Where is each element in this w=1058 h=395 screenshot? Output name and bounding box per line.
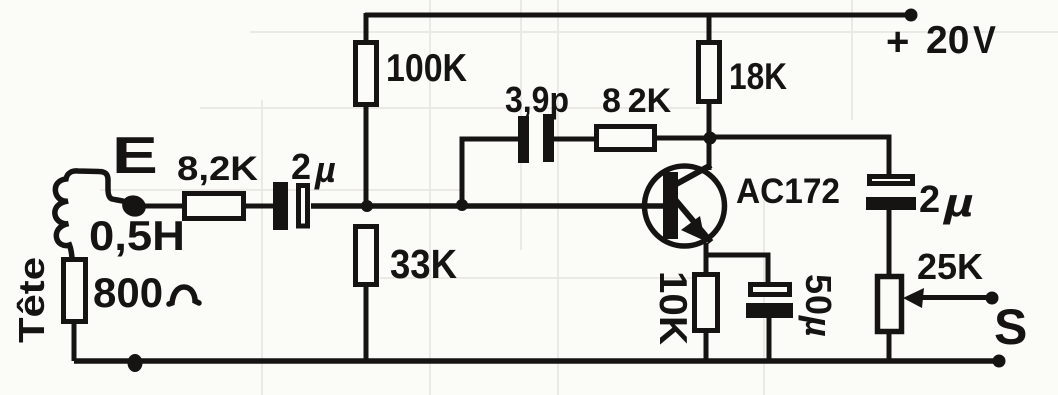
- svg-text:µ: µ: [314, 149, 336, 190]
- potentiometer P1 25K: [878, 277, 902, 332]
- capacitor C1 2µ input: solid plate: [273, 182, 288, 230]
- svg-text:Tête: Tête: [11, 257, 52, 343]
- svg-text:+: +: [886, 20, 909, 64]
- svg-text:800: 800: [93, 269, 163, 316]
- node: +20V supply terminal dot: [905, 9, 918, 22]
- node: E input terminal blob: [119, 192, 149, 220]
- node: S output terminal dot: [986, 292, 999, 305]
- capacitor C2 3,9p: right plate: [543, 114, 554, 162]
- wire: 33K bottom to ground rail: [364, 285, 369, 361]
- wire: output cap to potentiometer: [887, 210, 892, 276]
- svg-text:S: S: [994, 299, 1027, 355]
- svg-text:10K: 10K: [651, 271, 694, 345]
- wire: 82K to collector node: [657, 136, 710, 141]
- node: bottom-left input ground dot: [128, 354, 143, 372]
- svg-text:0,5H: 0,5H: [89, 212, 185, 259]
- node: feedback tap junction dot: [456, 199, 468, 211]
- resistor R4 8,2K: [185, 194, 244, 219]
- node: collector junction dot: [704, 132, 717, 145]
- svg-text:µ: µ: [942, 179, 974, 224]
- wire: 50µ bottom to ground rail: [767, 318, 772, 361]
- wire: top rail down to 18K: [707, 13, 712, 42]
- svg-text:33K: 33K: [390, 241, 457, 287]
- wire: bottom ground rail: [74, 358, 1001, 364]
- wire: 18K bottom to collector node: [707, 102, 712, 170]
- wire: 10K bottom to ground rail: [704, 331, 709, 361]
- wire: feedback tap up and right: [462, 139, 519, 206]
- node: divider junction dot: [361, 200, 373, 212]
- wire: 8,2K to C1: [246, 204, 273, 209]
- resistor R3 800 ohm: [64, 260, 86, 322]
- wire: top rail down to 100K: [364, 13, 369, 42]
- wire: top +20V supply rail: [365, 13, 911, 18]
- resistor R1 100K: [356, 43, 377, 105]
- wire: 800 bottom to ground rail: [72, 322, 77, 361]
- svg-text:8,2K: 8,2K: [177, 150, 258, 188]
- wire: potentiometer bottom to ground rail: [887, 332, 892, 361]
- label: ohm squiggle: [169, 287, 199, 304]
- resistor R5 82K: [597, 127, 655, 150]
- capacitor C1 2µ input: open plate: [299, 186, 308, 227]
- node: bottom-right output ground dot: [993, 355, 1006, 368]
- svg-text:E: E: [112, 126, 158, 184]
- capacitor C3 50µ: top open plate: [751, 285, 790, 295]
- resistor R7 10K: [695, 275, 718, 331]
- svg-text:18K: 18K: [729, 56, 787, 97]
- svg-text:25K: 25K: [917, 246, 983, 287]
- svg-text:V: V: [973, 18, 996, 62]
- svg-text:50µ: 50µ: [798, 274, 839, 338]
- transistor Q1 AC172: [645, 165, 725, 246]
- svg-text:20: 20: [926, 19, 969, 62]
- wire: E terminal to 8,2K: [144, 204, 184, 209]
- capacitor C4 2µ output: top open plate: [870, 177, 913, 184]
- capacitor C2 3,9p: left plate: [518, 116, 529, 163]
- capacitor C3 50µ: bottom solid plate: [746, 303, 793, 318]
- wiper arrowhead: [903, 288, 924, 308]
- inductor L1 0,5H tape head coil: [55, 171, 126, 258]
- wire: 3,9p to 82K: [554, 137, 594, 142]
- wire: wiper arm: [918, 295, 990, 300]
- resistor R6 18K: [699, 43, 720, 102]
- wire: emitter down and branch to 50µ: [704, 243, 768, 284]
- svg-text:8 2K: 8 2K: [602, 82, 672, 120]
- resistor R2 33K: [356, 227, 377, 285]
- capacitor C4 2µ output: bottom solid plate: [866, 197, 916, 210]
- svg-text:AC172: AC172: [736, 172, 840, 211]
- svg-text:3,9p: 3,9p: [505, 79, 569, 120]
- wire: 100K bottom to base node: [364, 105, 369, 204]
- svg-text:2: 2: [291, 146, 311, 187]
- svg-text:100K: 100K: [386, 47, 467, 90]
- wire: main base line: [311, 203, 663, 209]
- wire: collector node right to output cap: [710, 137, 889, 176]
- svg-text:2: 2: [919, 179, 940, 221]
